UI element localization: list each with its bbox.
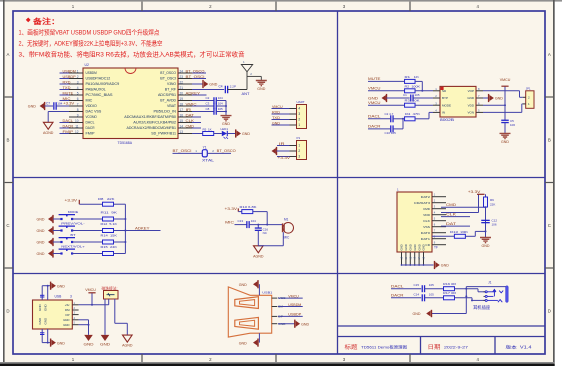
pin 21 U2 [178,89,192,91]
wire [79,203,102,205]
wire [368,118,390,120]
pin 6 TF [432,226,446,228]
svg-text:R15 24K: R15 24K [101,245,118,249]
svg-text:MIC: MIC [225,221,235,225]
ground [40,103,44,109]
svg-text:DP: DP [65,313,69,317]
wire [391,288,421,290]
svg-text:DACL: DACL [391,284,404,288]
svg-text:+3.3V: +3.3V [468,190,481,194]
svg-text:RXD: RXD [272,110,280,114]
wire [207,152,231,154]
svg-text:PB5/LDO_IN: PB5/LDO_IN [154,110,177,114]
svg-text:C14: C14 [414,292,420,296]
svg-text:GND: GND [37,229,45,233]
svg-text:GND: GND [404,244,408,250]
svg-text:R14 15K: R14 15K [101,234,118,238]
svg-text:15: 15 [180,119,184,123]
resistor R12 5.1K [103,229,114,233]
svg-text:R8 22K: R8 22K [98,197,115,201]
resistor R4 47K [405,117,416,121]
svg-text:VCOMO: VCOMO [86,115,98,119]
power +3.3V [477,193,485,195]
svg-text:104: 104 [251,219,256,223]
pin 2 TF [432,202,446,204]
wire net CMD [441,206,486,208]
pin 3 P1 [290,156,297,158]
svg-text:GND: GND [413,312,421,316]
connector JP1 speaker [526,91,534,109]
wire [228,133,236,135]
pin 23 U2 [178,78,192,80]
svg-text:GND: GND [37,241,45,245]
pin 6 U3 [476,104,483,106]
svg-text:GND: GND [239,341,247,345]
ground [50,282,52,290]
svg-text:ADCM/AUX1/RKBF/DATM/PB0: ADCM/AUX1/RKBF/DATM/PB0 [124,115,176,119]
svg-text:FMIP: FMIP [86,132,95,136]
wire [368,80,404,82]
svg-text:2、无按键时，ADKEY脚接22K上拉电阻到+3.3V、不能: 2、无按键时，ADKEY脚接22K上拉电阻到+3.3V、不能悬空 [19,39,163,48]
svg-text:DAT: DAT [446,222,457,226]
svg-text:AGND: AGND [43,131,54,135]
wire net GND [272,124,290,126]
svg-text:C: C [548,223,551,228]
svg-text:MIC: MIC [284,236,291,240]
svg-text:13: 13 [180,130,184,134]
svg-text:GND: GND [28,105,36,109]
svg-text:BT: BT [70,233,75,237]
svg-text:6: 6 [77,97,79,101]
pin 2 U3 [433,97,440,99]
wire net ADKEY [125,230,160,232]
svg-text:R4 47K: R4 47K [405,112,420,116]
resistor R8 22K [103,202,114,206]
svg-text:16: 16 [180,113,184,117]
svg-text:+5v: +5v [65,303,70,307]
wire [247,75,261,77]
svg-text:12: 12 [75,130,79,134]
wire [41,286,43,300]
pin 8 U3 [476,90,483,92]
resistor R11 9K [103,217,114,221]
svg-text:P1: P1 [297,136,301,140]
svg-text:版本 V1.4: 版本 V1.4 [506,343,533,349]
svg-text:+3.3V: +3.3V [63,101,75,105]
ground [101,335,110,341]
svg-text:106: 106 [510,123,515,127]
svg-text:ADKEY: ADKEY [186,91,201,95]
pin 5 USB [72,324,78,326]
wire [56,105,69,107]
ground [84,335,93,341]
wire [192,133,203,135]
pin 19 U2 [178,100,192,102]
svg-text:GND: GND [57,341,65,345]
svg-text:GND: GND [63,318,69,322]
ground [192,83,203,85]
wire [282,232,284,246]
svg-text:IR: IR [186,108,192,112]
svg-text:VMCU: VMCU [288,294,299,298]
svg-text:MIC: MIC [86,99,94,103]
wire [278,323,295,325]
wire [368,104,405,106]
pin 7 U3 [476,97,483,99]
wire [368,90,405,92]
svg-text:B: B [7,138,10,143]
svg-text:M1: M1 [284,218,289,222]
svg-text:R11 9K: R11 9K [101,211,118,215]
pin 2 P1 [290,150,297,152]
ground [480,238,491,243]
wire net FMIP [60,133,70,135]
ground [235,129,237,137]
svg-text:FMIP: FMIP [63,130,74,134]
pin 4 UART [290,108,297,110]
wire [192,105,214,107]
switch NEXT/VOL+ [60,252,62,254]
svg-text:备注：: 备注： [32,17,60,26]
pin 22 U2 [178,83,192,85]
svg-text:C: C [6,223,9,228]
svg-text:CD: CD [425,243,430,247]
wire [108,299,110,305]
wire [238,211,242,213]
wire net USBDP [278,315,303,317]
resistor R13 33K [432,235,455,237]
svg-text:C3: C3 [206,102,210,106]
wire [216,100,226,102]
pin 1 USB [72,304,78,306]
wire [235,224,247,226]
svg-text:105: 105 [218,107,223,111]
pin 2 USB1 [272,306,278,308]
svg-text:MUTE: MUTE [63,91,74,95]
svg-text:XTAL: XTAL [202,158,214,162]
resistor R2 100K [405,89,416,93]
pin 4 USB [72,319,78,321]
wire VON [483,111,522,113]
pin 1 UART [290,124,297,126]
svg-text:BT_OSCI: BT_OSCI [160,77,176,81]
svg-text:C7: C7 [46,101,50,105]
svg-text:GND: GND [63,323,69,327]
svg-text:USBDM: USBDM [288,303,301,307]
pin 13 U2 [178,133,192,135]
svg-text:TD5168A: TD5168A [118,141,133,145]
wire net MIC [60,100,70,102]
svg-text:R16 0R: R16 0R [443,282,457,286]
resistor R15 24K [103,252,114,256]
svg-text:105: 105 [429,283,434,287]
svg-text:TXD: TXD [272,116,280,120]
svg-text:R2 100K: R2 100K [405,84,421,88]
wire [72,230,102,232]
ground AGND [43,122,53,129]
wire net RXD [272,113,290,115]
wire [465,287,467,314]
wire net USBDP [60,78,70,80]
wire net CLK [441,216,470,218]
svg-text:4: 4 [77,86,79,90]
power VMCU [504,87,506,106]
svg-text:VOP: VOP [468,89,474,93]
svg-text:R13 33K: R13 33K [450,230,468,234]
node ADKEY [192,94,207,96]
svg-text:TD5611 Demo板原理图: TD5611 Demo板原理图 [361,344,407,349]
svg-text:GND: GND [301,322,309,326]
ground AGND [254,246,264,253]
capacitor C15 105 [421,285,423,292]
wire net DAT [441,225,470,227]
ground [500,133,511,138]
wire [425,297,444,299]
wire [504,123,506,134]
wire [173,152,203,154]
svg-text:CLK: CLK [423,219,431,223]
svg-text:VMIC: VMIC [186,102,198,106]
wire net VDD [441,212,479,214]
svg-text:C10 105: C10 105 [385,131,397,135]
svg-text:DACL: DACL [63,119,74,123]
svg-text:GND: GND [482,244,490,248]
wire [228,89,247,91]
resistor R17 0R [444,296,455,300]
wire net DACR [60,127,70,129]
svg-text:IR: IR [279,142,285,146]
ground [272,148,276,154]
pin GND TF [409,252,411,265]
svg-text:USBDP: USBDP [288,313,302,317]
svg-text:DACR: DACR [368,125,381,129]
connector TF card [397,192,432,252]
svg-text:USB1: USB1 [262,290,272,294]
wire net USBDM [60,72,70,74]
pin 18 U2 [178,105,192,107]
wire [258,333,260,342]
pin 10 U2 [69,122,83,124]
wire [413,97,433,99]
svg-text:24: 24 [180,69,184,73]
ground [48,228,52,234]
wire [41,329,43,343]
pin 3 U3 [433,104,440,106]
pin 3 USB [72,314,78,316]
svg-text:GND: GND [57,284,65,288]
crystal Y1 XTAL [202,150,207,157]
capacitor C2 4.7 [390,115,392,122]
svg-text:DACR: DACR [391,294,404,298]
wire [485,207,487,238]
ground [50,339,52,347]
pin 12 U2 [69,133,83,135]
wire net DAT [192,116,201,118]
wire [216,105,226,107]
wire VDD [483,104,505,106]
wire net BT_OSCI [192,78,206,80]
wire [225,101,227,116]
svg-text:DAT: DAT [186,113,195,117]
svg-text:R1 1K: R1 1K [405,75,420,79]
wire [53,253,61,255]
wire net RXD [60,83,70,85]
wire [415,80,422,82]
svg-text:GND: GND [209,83,217,87]
capacitor C8 [213,108,215,115]
svg-text:BT_OSCI: BT_OSCI [173,149,192,153]
pin 16 U2 [178,116,192,118]
svg-text:BYP: BYP [442,96,448,100]
svg-text:C1: C1 [403,93,407,97]
capacitor shield2 [40,332,44,334]
svg-text:GND: GND [501,140,509,144]
pin 2 UART [290,119,297,121]
wire [114,218,126,220]
svg-text:VON: VON [467,111,474,115]
wire VOP [483,90,520,92]
svg-text:8: 8 [77,108,79,112]
svg-text:GND: GND [441,264,449,268]
svg-text:DM: DM [65,308,70,312]
pin 7 TF [432,232,446,234]
resistor R16 0R [444,287,455,291]
svg-text:V3NO: V3NO [167,82,177,86]
svg-text:GND: GND [38,304,42,312]
pin 3 TF [432,208,446,210]
svg-text:ADKEY: ADKEY [135,226,150,230]
svg-text:MODE: MODE [68,210,78,214]
wire [79,319,89,321]
svg-text:VBAT: VBAT [167,104,176,108]
pin 2 USB [72,309,78,311]
pin 8 U2 [69,111,83,113]
op-amp U3 8002B [440,86,476,117]
op-amp U2 main IC TD5168A [83,68,178,139]
svg-text:日期: 日期 [428,344,441,351]
ground [253,281,257,287]
svg-text:CD/DAT3: CD/DAT3 [414,201,430,205]
svg-text:GND: GND [422,244,426,250]
wire net DACL [60,122,70,124]
svg-text:USBDP: USBDP [63,75,77,79]
wire [104,299,106,335]
svg-text:11: 11 [75,124,79,128]
svg-text:VDD: VDD [468,103,475,107]
wire [402,264,434,266]
svg-text:LED1: LED1 [221,127,229,131]
ground [294,320,296,328]
svg-text:A: A [7,52,10,57]
svg-text:1: 1 [298,144,300,148]
svg-text:1: 1 [298,123,300,127]
svg-text:3: 3 [77,80,79,84]
wire net BT_OSCO [192,72,206,74]
wire net CLK [192,122,201,124]
wire [44,105,53,107]
svg-text:+3.3V: +3.3V [225,207,238,211]
svg-text:+3.3V: +3.3V [278,156,291,160]
pin 15 U2 [178,122,192,124]
ground [48,239,52,245]
svg-text:VMCU: VMCU [85,288,96,292]
svg-text:BT_OSCO: BT_OSCO [160,71,176,75]
wire [465,235,475,237]
svg-text:ADCS/PB1: ADCS/PB1 [158,93,176,97]
svg-text:2.2P: 2.2P [230,85,236,89]
svg-text:PC7/MIC_BIAS: PC7/MIC_BIAS [86,93,113,97]
svg-text:20: 20 [180,91,184,95]
svg-text:USBDM: USBDM [86,71,98,75]
pin 17 U2 [178,111,192,113]
resistor R1 1K [405,79,416,83]
svg-text:DACL: DACL [86,121,95,125]
svg-text:DAT1: DAT1 [421,237,431,241]
svg-text:R17 0R: R17 0R [443,291,457,295]
pin 5 TF [432,220,446,222]
svg-text:GND: GND [44,304,48,312]
svg-text:D: D [6,309,9,314]
node +3.3V [277,156,290,158]
pin 7 U2 [69,105,83,107]
svg-text:GND: GND [413,244,417,250]
svg-text:PA10/AUX0R/ADC9: PA10/AUX0R/ADC9 [86,82,120,86]
svg-text:GND: GND [38,317,42,325]
svg-text:GND: GND [100,342,110,346]
wire [72,218,102,220]
svg-text:TXD: TXD [63,86,71,90]
capacitor C13 104 [246,221,248,228]
svg-text:22: 22 [180,80,184,84]
switch BT [60,241,62,243]
svg-text:GND: GND [37,218,45,222]
capacitor C16 NC [257,225,259,228]
svg-text:磁珠接法:: 磁珠接法: [102,285,118,290]
wire net CMD [192,127,201,129]
LED D1 [222,131,227,136]
svg-text:GND: GND [44,317,48,325]
ground [48,216,52,222]
ferrite bead [104,291,119,300]
svg-text:3: 3 [298,112,300,116]
svg-text:DACR: DACR [63,124,74,128]
wire BT_RF [192,89,224,91]
svg-text:GND: GND [239,283,247,287]
svg-text:VMCU: VMCU [500,78,511,82]
wire [393,128,403,130]
svg-text:GND: GND [242,132,250,136]
svg-text:7: 7 [77,102,79,106]
svg-text:R9: R9 [490,198,494,202]
svg-text:BT_AVDD: BT_AVDD [160,99,177,103]
svg-text:ADCRA/UX2/RNBDCMD/MFB1: ADCRA/UX2/RNBDCMD/MFB1 [127,126,177,130]
wire [72,253,102,255]
svg-text:BT_OSCO: BT_OSCO [217,149,236,153]
svg-text:ANT: ANT [242,92,250,96]
capacitor C7 [53,102,55,110]
svg-text:GND: GND [495,97,503,101]
pin 11 U2 [69,127,83,129]
pin 1 P1 [290,145,297,147]
svg-text:DACR: DACR [86,126,96,130]
svg-text:C8: C8 [206,107,210,111]
pin GND TF [423,252,425,265]
svg-text:R3 10K: R3 10K [405,99,420,103]
wire [386,97,409,99]
wire [114,203,126,205]
wire [415,104,433,106]
svg-text:AGND: AGND [253,254,264,258]
